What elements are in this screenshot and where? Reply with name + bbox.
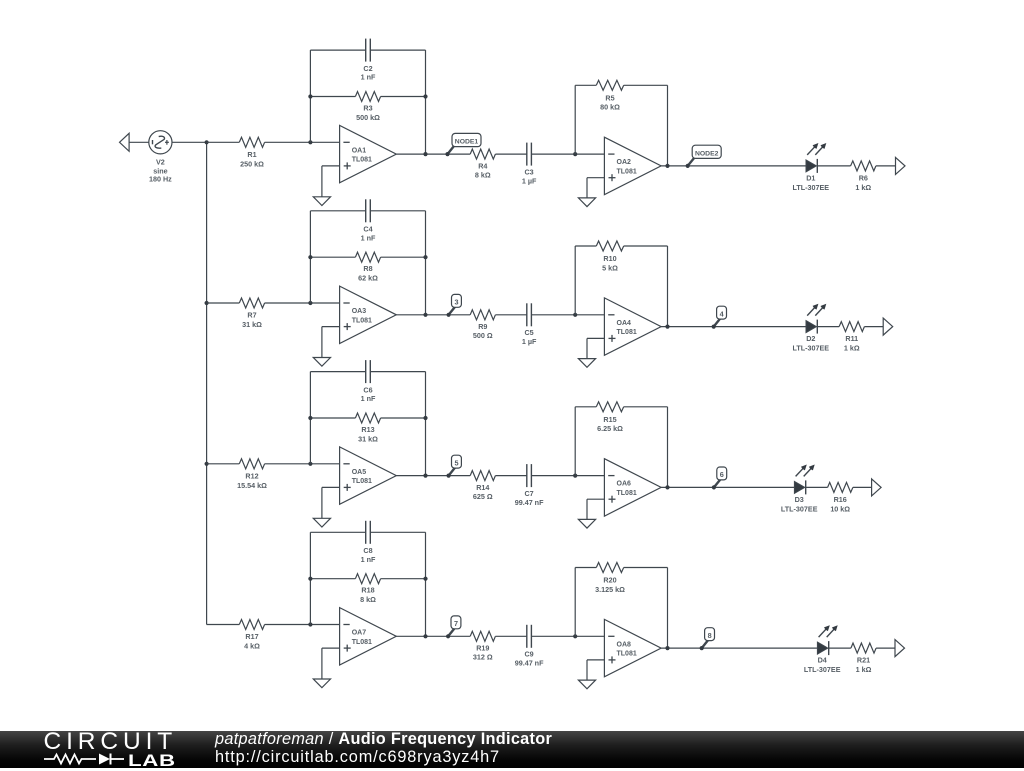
svg-text:1 µF: 1 µF: [522, 176, 537, 185]
wire C5 to op-amp OA4: [531, 314, 604, 316]
svg-text:LTL-307EE: LTL-307EE: [781, 504, 818, 513]
node junction fb1 res right row3: [423, 416, 427, 420]
LED D2: [806, 321, 816, 333]
svg-text:NODE1: NODE1: [455, 139, 479, 146]
svg-text:R17: R17: [245, 632, 258, 641]
svg-text:6.25 kΩ: 6.25 kΩ: [597, 424, 623, 433]
svg-text:C9: C9: [524, 650, 533, 659]
svg-text:TL081: TL081: [617, 490, 637, 497]
fb2 right vertical wire row3: [667, 407, 669, 488]
fb2 left vertical wire row3: [574, 407, 576, 476]
svg-text:7: 7: [454, 619, 458, 628]
svg-text:OA5: OA5: [352, 469, 367, 476]
node flag 4 row2: [714, 319, 720, 327]
svg-text:C5: C5: [524, 328, 533, 337]
ground OA8: [578, 680, 595, 689]
svg-text:R13: R13: [361, 425, 374, 434]
svg-text:OA6: OA6: [617, 481, 632, 488]
fb2 top wire left row1: [575, 84, 596, 86]
wire LED to R6: [817, 165, 850, 167]
svg-text:31 kΩ: 31 kΩ: [242, 320, 262, 329]
resistor R9: [470, 310, 495, 320]
fb2 left vertical wire row4: [574, 568, 576, 637]
LED D1: [806, 160, 816, 172]
svg-text:625 Ω: 625 Ω: [473, 492, 493, 501]
ground OA6: [578, 519, 595, 528]
resistor R16: [828, 482, 853, 492]
node junction fb2 right row1: [665, 164, 669, 168]
wire R11 to output port: [864, 326, 883, 328]
wire LED to R21: [829, 647, 851, 649]
node junction fb1 left row2: [308, 301, 312, 305]
svg-text:C2: C2: [363, 64, 372, 73]
wire R21 to output port: [876, 647, 895, 649]
node junction fb1 right row2: [423, 313, 427, 317]
node junction fb2 right row2: [665, 325, 669, 329]
node junction fb2 right row4: [665, 646, 669, 650]
svg-text:5 kΩ: 5 kΩ: [602, 263, 618, 272]
footer title and url: [215, 730, 552, 767]
svg-text:R11: R11: [845, 334, 858, 343]
resistor R21: [851, 643, 876, 653]
node junction fb2 right row3: [665, 485, 669, 489]
svg-text:D4: D4: [818, 656, 827, 665]
capacitor C8: [365, 521, 367, 544]
svg-text:LTL-307EE: LTL-307EE: [792, 344, 829, 353]
svg-text:TL081: TL081: [617, 329, 637, 336]
output arrow row1: [896, 157, 906, 174]
svg-text:V2: V2: [156, 157, 165, 166]
svg-text:OA8: OA8: [617, 641, 632, 648]
svg-text:62 kΩ: 62 kΩ: [358, 274, 378, 283]
voltage source V2: [149, 131, 172, 154]
wire bus to R input row1: [207, 141, 240, 143]
node flag 3 row2: [449, 307, 455, 315]
wire bus to R input row4: [207, 624, 240, 626]
svg-text:6: 6: [720, 470, 724, 479]
op-amp OA3: [340, 286, 397, 343]
svg-text:R14: R14: [476, 483, 489, 492]
wire OA3 output row2: [396, 314, 470, 316]
svg-text:1 nF: 1 nF: [361, 394, 376, 403]
node junction fb1 res left row4: [308, 577, 312, 581]
svg-text:TL081: TL081: [352, 157, 372, 164]
output arrow row2: [883, 318, 893, 335]
svg-text:D3: D3: [795, 495, 804, 504]
svg-text:312 Ω: 312 Ω: [473, 653, 493, 662]
resistor R19: [470, 631, 495, 641]
wire R4 to C3: [495, 153, 526, 155]
svg-text:8 kΩ: 8 kΩ: [360, 595, 376, 604]
svg-text:80 kΩ: 80 kΩ: [600, 103, 620, 112]
fb2 top wire left row3: [575, 406, 596, 408]
fb1 right vertical wire row2: [425, 211, 427, 315]
node flag 8 row4: [702, 640, 708, 648]
resistor R10: [596, 241, 623, 251]
fb2 right vertical wire row1: [667, 85, 669, 166]
wire OA4 + input to ground: [587, 337, 604, 339]
svg-text:4 kΩ: 4 kΩ: [244, 642, 260, 651]
capacitor C9: [526, 625, 528, 648]
svg-text:250 kΩ: 250 kΩ: [240, 159, 264, 168]
svg-text:TL081: TL081: [617, 169, 637, 176]
svg-text:1 kΩ: 1 kΩ: [856, 665, 872, 674]
op-amp OA8: [604, 619, 661, 676]
wire LED to R11: [817, 326, 839, 328]
node junction fb1 right row4: [423, 634, 427, 638]
CircuitLab logo text LAB: [128, 751, 176, 771]
op-amp OA6: [604, 459, 661, 516]
svg-text:D1: D1: [806, 173, 815, 182]
node junction bus row1: [205, 140, 209, 144]
wire R17 to op-amp OA7 inverting input: [265, 624, 340, 626]
resistor R3: [355, 92, 380, 102]
svg-text:C7: C7: [524, 489, 533, 498]
svg-text:3: 3: [454, 298, 458, 307]
svg-text:R10: R10: [603, 254, 616, 263]
wire OA1 + input to ground: [322, 165, 340, 167]
svg-text:R8: R8: [363, 264, 372, 273]
svg-text:R1: R1: [247, 150, 256, 159]
fb1 resistor wire left row2: [310, 256, 355, 258]
svg-text:OA3: OA3: [352, 308, 367, 315]
svg-text:10 kΩ: 10 kΩ: [830, 504, 850, 513]
svg-text:500 Ω: 500 Ω: [473, 331, 493, 340]
fb2 left vertical wire row1: [574, 85, 576, 154]
svg-text:R5: R5: [605, 93, 614, 102]
node junction fb1 res left row3: [308, 416, 312, 420]
wire C3 to op-amp OA2: [531, 153, 604, 155]
wire R7 to op-amp OA3 inverting input: [265, 302, 340, 304]
node junction fb2 left row4: [573, 634, 577, 638]
svg-text:1 kΩ: 1 kΩ: [844, 344, 860, 353]
capacitor C7: [526, 464, 528, 487]
svg-text:R15: R15: [603, 415, 616, 424]
svg-text:C8: C8: [363, 546, 372, 555]
fb1 left vertical wire row3: [309, 372, 311, 464]
node junction fb1 right row1: [423, 152, 427, 156]
capacitor C6: [365, 360, 367, 383]
resistor R4: [470, 149, 495, 159]
resistor R14: [470, 471, 495, 481]
input arrow (left port): [120, 133, 130, 151]
svg-text:99.47 nF: 99.47 nF: [515, 498, 544, 507]
resistor R17: [239, 620, 264, 630]
wire OA1 output row1: [396, 153, 470, 155]
node junction bus row2: [205, 301, 209, 305]
node junction fb1 left row4: [308, 622, 312, 626]
fb1 top wire left row1: [310, 49, 365, 51]
svg-text:LTL-307EE: LTL-307EE: [792, 183, 829, 192]
resistor R8: [355, 252, 380, 262]
op-amp OA2: [604, 137, 661, 194]
capacitor C4: [365, 199, 367, 222]
fb2 top wire right row1: [624, 84, 668, 86]
wire bus to R input row3: [207, 463, 240, 465]
svg-text:R4: R4: [478, 161, 487, 170]
svg-text:TL081: TL081: [352, 639, 372, 646]
svg-text:99.47 nF: 99.47 nF: [515, 659, 544, 668]
svg-text:R21: R21: [857, 656, 870, 665]
svg-text:8: 8: [708, 631, 712, 640]
node junction fb2 left row2: [573, 313, 577, 317]
fb1 top wire left row3: [310, 371, 365, 373]
fb1 top wire left row2: [310, 210, 365, 212]
fb1 top wire right row4: [370, 531, 425, 533]
node junction fb1 res right row2: [423, 255, 427, 259]
bus vertical wire: [206, 142, 208, 624]
svg-text:NODE2: NODE2: [695, 150, 719, 157]
resistor R15: [596, 402, 623, 412]
svg-text:D2: D2: [806, 334, 815, 343]
wire C9 to op-amp OA8: [531, 635, 604, 637]
wire OA6 + input to ground: [587, 498, 604, 500]
node junction fb1 left row1: [308, 140, 312, 144]
svg-text:15.54 kΩ: 15.54 kΩ: [237, 481, 267, 490]
resistor R6: [851, 161, 876, 171]
node flag 7 row4: [448, 629, 454, 637]
wire R14 to C7: [495, 475, 526, 477]
node junction bus row3: [205, 462, 209, 466]
wire OA4 output to LED D2: [661, 326, 806, 328]
fb1 resistor wire right row2: [381, 256, 426, 258]
svg-text:OA2: OA2: [617, 159, 632, 166]
node flag NODE2 row1: [688, 158, 694, 166]
fb1 left vertical wire row2: [309, 211, 311, 303]
wire OA6 output to LED D3: [661, 486, 794, 488]
LED D4: [817, 642, 827, 654]
svg-text:C4: C4: [363, 225, 372, 234]
CircuitLab logo text CIRCUIT: [44, 728, 178, 756]
svg-text:1 nF: 1 nF: [361, 233, 376, 242]
fb2 top wire left row4: [575, 567, 596, 569]
fb1 left vertical wire row4: [309, 532, 311, 624]
svg-text:R7: R7: [247, 311, 256, 320]
resistor R12: [239, 459, 264, 469]
node junction fb1 left row3: [308, 462, 312, 466]
fb2 top wire right row2: [624, 245, 668, 247]
wire bus to R input row2: [207, 302, 240, 304]
svg-text:TL081: TL081: [352, 317, 372, 324]
wire R6 to output port: [876, 165, 896, 167]
svg-text:R12: R12: [245, 471, 258, 480]
fb2 top wire right row3: [624, 406, 668, 408]
fb1 resistor wire left row4: [310, 578, 355, 580]
fb2 left vertical wire row2: [574, 246, 576, 315]
wire V2 to bus node: [172, 141, 207, 143]
LED D3: [794, 481, 804, 493]
svg-text:OA7: OA7: [352, 630, 367, 637]
ground OA1: [313, 197, 330, 206]
svg-text:R19: R19: [476, 644, 489, 653]
fb1 right vertical wire row4: [425, 532, 427, 636]
wire C7 to op-amp OA6: [531, 475, 604, 477]
node junction fb2 left row3: [573, 474, 577, 478]
fb2 right vertical wire row4: [667, 568, 669, 649]
svg-text:OA1: OA1: [352, 147, 367, 154]
fb1 right vertical wire row3: [425, 372, 427, 476]
wire R19 to C9: [495, 635, 526, 637]
svg-text:R16: R16: [834, 495, 847, 504]
wire OA3 + input to ground: [322, 326, 340, 328]
wire R12 to op-amp OA5 inverting input: [265, 463, 340, 465]
svg-text:OA4: OA4: [617, 320, 632, 327]
fb2 top wire left row2: [575, 245, 596, 247]
fb1 top wire right row2: [370, 210, 425, 212]
wire OA8 + input to ground: [587, 659, 604, 661]
node flag 6 row3: [714, 480, 720, 488]
node flag 5 row3: [449, 468, 455, 476]
wire OA7 + input to ground: [322, 647, 340, 649]
svg-text:TL081: TL081: [352, 478, 372, 485]
resistor R13: [355, 413, 380, 423]
svg-text:1 nF: 1 nF: [361, 73, 376, 82]
node flag NODE1 row1: [448, 146, 454, 154]
wire R1 to op-amp OA1 inverting input: [265, 141, 340, 143]
fb1 left vertical wire row1: [309, 50, 311, 142]
fb1 resistor wire left row3: [310, 417, 355, 419]
capacitor C5: [526, 303, 528, 326]
wire OA2 + input to ground: [587, 177, 604, 179]
svg-text:TL081: TL081: [617, 651, 637, 658]
fb2 top wire right row4: [624, 567, 668, 569]
op-amp OA5: [340, 447, 397, 504]
ground OA5: [313, 518, 330, 527]
svg-text:R9: R9: [478, 322, 487, 331]
output arrow row3: [872, 479, 882, 496]
svg-text:R3: R3: [363, 104, 372, 113]
ground OA4: [578, 359, 595, 368]
svg-text:LTL-307EE: LTL-307EE: [804, 665, 841, 674]
resistor R18: [355, 574, 380, 584]
fb1 resistor wire right row3: [381, 417, 426, 419]
fb1 resistor wire left row1: [310, 96, 355, 98]
svg-text:R18: R18: [361, 586, 374, 595]
CircuitLab logo resistor-diode glyph: [44, 752, 126, 766]
wire OA2 output to LED D1: [661, 165, 806, 167]
wire OA7 output row4: [396, 635, 470, 637]
svg-text:1 kΩ: 1 kΩ: [855, 183, 871, 192]
fb1 top wire left row4: [310, 531, 365, 533]
svg-text:1 µF: 1 µF: [522, 337, 537, 346]
svg-text:180 Hz: 180 Hz: [149, 175, 172, 184]
op-amp OA1: [340, 125, 397, 182]
resistor R11: [839, 322, 864, 332]
node junction fb1 res left row2: [308, 255, 312, 259]
svg-text:C6: C6: [363, 385, 372, 394]
svg-text:31 kΩ: 31 kΩ: [358, 434, 378, 443]
node junction fb1 res right row1: [423, 94, 427, 98]
node junction fb1 right row3: [423, 474, 427, 478]
ground OA2: [578, 198, 595, 207]
svg-text:5: 5: [454, 458, 458, 467]
node junction fb1 res left row1: [308, 94, 312, 98]
resistor R1: [239, 137, 264, 147]
ground OA3: [313, 358, 330, 367]
capacitor C3: [526, 143, 528, 166]
resistor R5: [596, 80, 623, 90]
wire LED to R16: [806, 486, 828, 488]
wire OA5 + input to ground: [322, 486, 340, 488]
node junction fb2 left row1: [573, 152, 577, 156]
svg-text:500 kΩ: 500 kΩ: [356, 113, 380, 122]
fb1 top wire right row1: [370, 49, 425, 51]
ground OA7: [313, 679, 330, 688]
svg-text:R20: R20: [603, 576, 616, 585]
svg-text:C3: C3: [524, 167, 533, 176]
fb1 right vertical wire row1: [425, 50, 427, 154]
op-amp OA4: [604, 298, 661, 355]
fb1 resistor wire right row4: [381, 578, 426, 580]
svg-text:1 nF: 1 nF: [361, 555, 376, 564]
wire arrow to V2: [129, 141, 149, 143]
fb2 right vertical wire row2: [667, 246, 669, 327]
fb1 top wire right row3: [370, 371, 425, 373]
op-amp OA7: [340, 608, 397, 665]
resistor R20: [596, 563, 623, 573]
wire OA5 output row3: [396, 475, 470, 477]
capacitor C2: [365, 39, 367, 62]
svg-text:3.125 kΩ: 3.125 kΩ: [595, 585, 625, 594]
wire R16 to output port: [853, 486, 872, 488]
node junction fb1 res right row4: [423, 577, 427, 581]
svg-text:8 kΩ: 8 kΩ: [475, 171, 491, 180]
wire R9 to C5: [495, 314, 526, 316]
fb1 resistor wire right row1: [381, 96, 426, 98]
svg-text:R6: R6: [859, 173, 868, 182]
output arrow row4: [895, 640, 905, 657]
resistor R7: [239, 298, 264, 308]
wire OA8 output to LED D4: [661, 647, 817, 649]
